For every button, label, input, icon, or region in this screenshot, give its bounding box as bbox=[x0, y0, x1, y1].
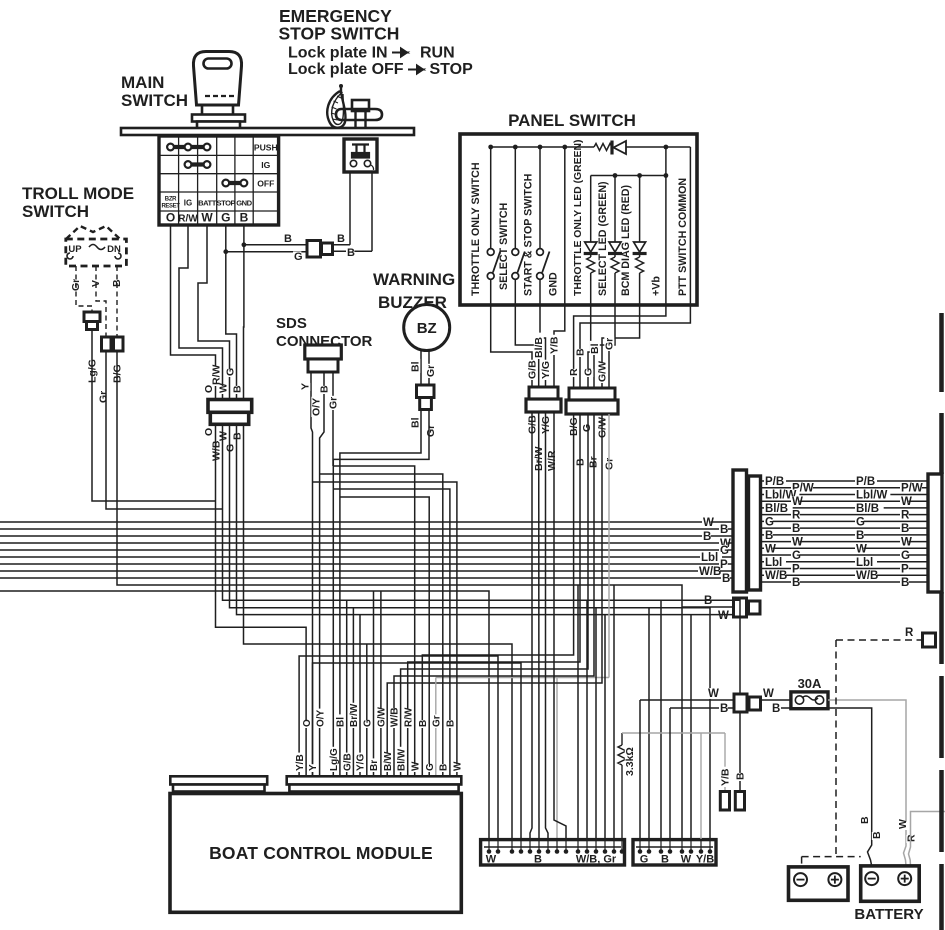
svg-text:Bl/W: Bl/W bbox=[396, 748, 407, 771]
svg-text:G: G bbox=[225, 444, 237, 452]
label B fuse right bbox=[771, 703, 780, 714]
wire gray Gr link bbox=[436, 677, 609, 679]
svg-text:Gr: Gr bbox=[425, 425, 437, 437]
svg-text:START & STOP SWITCH: START & STOP SWITCH bbox=[523, 174, 535, 296]
wire panel select switch to Bl/B bbox=[515, 305, 538, 387]
wire troll B/G down bbox=[117, 351, 682, 839]
svg-text:SELECT LED (GREEN): SELECT LED (GREEN) bbox=[597, 181, 609, 296]
svg-text:Lbl/W: Lbl/W bbox=[856, 489, 887, 501]
bcm wire label B/W bbox=[383, 753, 393, 772]
wire W to fuse connector bbox=[640, 699, 733, 701]
wire panel2 run 4 bbox=[394, 414, 594, 776]
svg-text:Lbl: Lbl bbox=[701, 552, 718, 564]
svg-text:O: O bbox=[166, 211, 175, 225]
svg-text:B: B bbox=[735, 772, 747, 780]
label B battery 1 bbox=[860, 817, 870, 825]
troll switch contacts bbox=[67, 253, 73, 259]
wire panel throttle switch to G/B bbox=[491, 305, 532, 387]
wire panel start stop to Y/G bbox=[540, 305, 546, 387]
wire harness B bbox=[761, 581, 928, 583]
svg-text:Lbl: Lbl bbox=[765, 557, 782, 569]
label 3.3kohm bbox=[625, 745, 635, 777]
small connector B/W bbox=[734, 598, 747, 617]
wire SDS B bbox=[320, 372, 324, 444]
wire bcm Y riser from SDS bbox=[312, 440, 314, 776]
label Y/B terminal bbox=[720, 767, 730, 787]
svg-text:W: W bbox=[856, 543, 867, 555]
svg-text:Y/B: Y/B bbox=[295, 754, 306, 771]
wire emergency stop right B bbox=[371, 172, 373, 251]
wire troll Gr dashed bbox=[76, 266, 92, 312]
svg-text:Lock plate IN: Lock plate IN bbox=[288, 45, 388, 62]
emergency stop inline connector bbox=[307, 241, 321, 258]
svg-text:30A: 30A bbox=[798, 676, 822, 691]
svg-text:Gr: Gr bbox=[432, 715, 443, 727]
svg-text:B: B bbox=[720, 524, 728, 536]
svg-text:W: W bbox=[218, 431, 230, 441]
svg-text:W: W bbox=[792, 496, 803, 508]
svg-text:B: B bbox=[337, 233, 345, 245]
label R battery bbox=[906, 835, 916, 843]
wire B terminal bbox=[739, 791, 741, 793]
bcm connector strip left bbox=[170, 776, 267, 784]
dashed wire R main bbox=[836, 639, 917, 641]
boat control module box bbox=[170, 794, 461, 913]
wire bcm Y/B feed bbox=[299, 656, 498, 839]
svg-text:W: W bbox=[703, 517, 714, 529]
gray link resistor to strip2 bbox=[622, 732, 725, 734]
svg-text:B: B bbox=[720, 703, 728, 715]
dashed wire battery jumper vertical bbox=[835, 640, 837, 857]
wire panel2 run 5 bbox=[387, 414, 602, 776]
wire bcm G/W riser bbox=[380, 591, 382, 776]
emergency stop lanyard cord bbox=[327, 91, 345, 128]
svg-text:B: B bbox=[792, 523, 800, 535]
svg-text:G: G bbox=[792, 550, 801, 562]
svg-text:B: B bbox=[446, 720, 457, 727]
bcm wire label W bbox=[453, 764, 463, 772]
svg-text:SDS: SDS bbox=[276, 315, 307, 332]
throttle only switch bbox=[490, 147, 492, 249]
label Bl buzzer top bbox=[410, 359, 420, 373]
wire main G to W terminal bbox=[237, 424, 734, 614]
wire branch to BCM G riser bbox=[320, 474, 443, 776]
svg-text:G/W: G/W bbox=[377, 706, 388, 727]
svg-text:Lbl: Lbl bbox=[856, 557, 873, 569]
svg-text:R/W: R/W bbox=[178, 214, 198, 225]
harness connector right (to engine) bbox=[928, 474, 942, 592]
svg-text:BZ: BZ bbox=[417, 320, 437, 337]
labels above main connector bbox=[204, 386, 214, 394]
bcm wire label Y/B bbox=[295, 753, 305, 772]
svg-text:R/W: R/W bbox=[403, 707, 414, 727]
wire strip2 pin 661 drop bbox=[660, 600, 662, 839]
lanyard pin bbox=[340, 86, 342, 95]
wire harness R bbox=[761, 514, 928, 516]
wire SDS Gr to BCM W riser bbox=[333, 466, 415, 776]
svg-text:+Vb: +Vb bbox=[651, 276, 663, 296]
emergency stop knob bbox=[352, 100, 369, 111]
emergency stop lock plate bbox=[336, 109, 382, 120]
bcm connector strip right bbox=[287, 776, 462, 784]
svg-text:B: B bbox=[284, 233, 292, 245]
svg-text:Bl/B: Bl/B bbox=[856, 503, 879, 515]
wire bcm Br/W riser bbox=[352, 608, 354, 776]
svg-text:Bl/B: Bl/B bbox=[533, 337, 545, 358]
bcm wire label W/B bbox=[390, 709, 400, 728]
main switch key dashed grip line bbox=[205, 95, 236, 97]
svg-text:TROLL MODE: TROLL MODE bbox=[22, 184, 134, 203]
svg-text:Y/B: Y/B bbox=[549, 336, 561, 354]
svg-text:BATT: BATT bbox=[198, 199, 217, 208]
svg-text:PANEL SWITCH: PANEL SWITCH bbox=[508, 111, 636, 130]
svg-text:G/B: G/B bbox=[342, 753, 353, 771]
main switch contact table bbox=[159, 136, 279, 225]
panel connector 1 bbox=[529, 387, 558, 399]
troll connector Lg/G bbox=[84, 312, 100, 322]
wire panel led1 to G bbox=[588, 305, 591, 388]
wire R/W column bbox=[179, 225, 223, 398]
svg-text:G: G bbox=[363, 719, 374, 727]
wire buzzer Gr to BCM Lg/G riser bbox=[333, 410, 429, 777]
svg-text:R: R bbox=[568, 368, 580, 376]
label W battery bbox=[898, 822, 908, 830]
wire harness G bbox=[761, 520, 928, 522]
svg-text:B: B bbox=[439, 764, 450, 771]
label R dashed bbox=[904, 627, 913, 638]
wire Y/B terminal bbox=[724, 733, 726, 792]
wire harness P/W bbox=[761, 487, 928, 489]
svg-text:B: B bbox=[859, 816, 871, 824]
svg-text:B: B bbox=[240, 211, 249, 225]
svg-text:STOP: STOP bbox=[217, 199, 236, 208]
wire main W/B to B terminal bbox=[223, 424, 741, 791]
svg-text:W: W bbox=[708, 688, 719, 700]
svg-text:R: R bbox=[906, 834, 918, 842]
svg-text:GND: GND bbox=[236, 199, 252, 208]
main inline connector bbox=[208, 400, 252, 413]
wire panel2 run 1 bbox=[422, 414, 573, 776]
svg-text:R: R bbox=[905, 627, 914, 639]
battery 2 bbox=[861, 866, 920, 901]
wire bundle-left B bbox=[0, 528, 733, 530]
wire emergency stop left B bbox=[349, 172, 351, 245]
wire bundle-left B bbox=[0, 577, 733, 579]
svg-text:B: B bbox=[575, 348, 587, 356]
svg-text:W: W bbox=[765, 543, 776, 555]
labels above panel connector 2 bbox=[569, 369, 579, 377]
svg-text:G: G bbox=[221, 211, 230, 225]
wire troll Gr down bbox=[106, 351, 223, 509]
svg-text:W/B: W/B bbox=[211, 440, 223, 461]
bcm wire label Br/W bbox=[349, 703, 359, 728]
wire B to small connector bbox=[682, 606, 733, 608]
wire G column bbox=[226, 225, 237, 398]
svg-text:Bl/B: Bl/B bbox=[765, 503, 788, 515]
wire bundle-left G bbox=[0, 549, 733, 551]
svg-text:W: W bbox=[201, 211, 213, 225]
svg-text:B: B bbox=[765, 530, 773, 542]
label B right top bbox=[336, 233, 344, 243]
wire R battery bbox=[909, 812, 945, 867]
svg-text:W: W bbox=[718, 610, 729, 622]
svg-text:Gr: Gr bbox=[425, 365, 437, 377]
svg-text:Gr: Gr bbox=[70, 279, 82, 291]
svg-text:BCM DIAG LED (RED): BCM DIAG LED (RED) bbox=[620, 185, 632, 296]
svg-text:Gr: Gr bbox=[98, 391, 110, 403]
svg-text:W: W bbox=[681, 854, 692, 866]
wire buzzer Bl bbox=[420, 350, 422, 385]
svg-text:Gr: Gr bbox=[604, 338, 616, 350]
bcm wire label R/W bbox=[404, 709, 414, 728]
labels above panel connector 1 bbox=[527, 360, 537, 380]
svg-text:UP: UP bbox=[68, 244, 82, 255]
wire bundle-left W/B bbox=[0, 570, 733, 572]
wire branch to BCM W riser 2 bbox=[313, 482, 457, 776]
svg-text:P: P bbox=[901, 563, 909, 575]
bcm wire label O/Y bbox=[316, 709, 326, 728]
wire harness Lbl bbox=[761, 561, 928, 563]
svg-text:BOAT CONTROL MODULE: BOAT CONTROL MODULE bbox=[209, 843, 433, 863]
wire main B to strip1 pin 512 bbox=[244, 424, 513, 839]
bcm wire label G/B bbox=[343, 753, 353, 772]
panel switch box bbox=[460, 134, 697, 305]
svg-text:G: G bbox=[581, 424, 593, 432]
gnd wire bbox=[564, 147, 566, 305]
wire main O to BCM O riser bbox=[216, 424, 307, 776]
svg-text:W: W bbox=[792, 537, 803, 549]
svg-text:Y/G: Y/G bbox=[356, 754, 367, 771]
svg-text:Y/B: Y/B bbox=[696, 854, 714, 866]
svg-text:B: B bbox=[772, 703, 780, 715]
svg-text:G: G bbox=[425, 763, 436, 771]
svg-text:O: O bbox=[302, 719, 313, 727]
svg-text:B: B bbox=[792, 577, 800, 589]
svg-text:O: O bbox=[203, 428, 215, 436]
wire B to fuse connector bbox=[670, 707, 733, 709]
wire panel ptt to B bbox=[580, 305, 690, 388]
svg-text:RESET: RESET bbox=[161, 204, 180, 210]
svg-text:B/W: B/W bbox=[383, 751, 394, 771]
wire bundle-left B bbox=[0, 535, 733, 537]
dashed wire battery jumper horizontal bbox=[802, 856, 861, 858]
wire bundle-left Lbl bbox=[0, 556, 733, 558]
svg-text:Y/B: Y/B bbox=[720, 768, 732, 786]
wire troll V dashed bbox=[96, 266, 106, 337]
wire panel Gr stub bbox=[608, 342, 610, 388]
wire buzzer Bl to BCM Bl riser bbox=[340, 410, 421, 777]
wire harness W bbox=[761, 541, 928, 543]
main switch IG row contacts bbox=[188, 162, 207, 166]
mounting panel bar bbox=[121, 128, 414, 135]
svg-text:B: B bbox=[661, 854, 669, 866]
relay connector strip 1 bbox=[481, 840, 625, 865]
svg-text:Y: Y bbox=[308, 764, 319, 771]
svg-text:W/B: W/B bbox=[856, 570, 878, 582]
panel bus resistor bbox=[594, 144, 612, 151]
svg-text:R: R bbox=[901, 510, 910, 522]
svg-text:G: G bbox=[640, 854, 649, 866]
svg-text:Bl: Bl bbox=[410, 361, 422, 372]
label B small conn bbox=[703, 595, 712, 606]
panel bus diode bbox=[610, 141, 613, 155]
svg-text:B: B bbox=[111, 279, 123, 287]
svg-text:W: W bbox=[763, 688, 774, 700]
led columns bbox=[590, 176, 592, 243]
svg-text:B: B bbox=[347, 247, 355, 259]
svg-text:BZR: BZR bbox=[165, 197, 177, 203]
warning buzzer BZ bbox=[404, 305, 450, 351]
label Y sds bbox=[300, 383, 310, 391]
terminal R bbox=[923, 633, 936, 647]
wire harness P/B bbox=[761, 480, 928, 482]
svg-text:O/Y: O/Y bbox=[315, 709, 326, 727]
wire bcm O/Y riser from SDS bbox=[319, 444, 321, 776]
svg-text:3.3kΩ: 3.3kΩ bbox=[624, 747, 636, 776]
bcm wire label Y bbox=[308, 764, 318, 772]
svg-text:THROTTLE ONLY LED (GREEN): THROTTLE ONLY LED (GREEN) bbox=[573, 140, 584, 296]
labels below panel connector 2 bbox=[569, 417, 579, 437]
label Gr bbox=[98, 390, 108, 404]
wire strip1 pin 596 drop bbox=[595, 608, 597, 839]
svg-text:Lg/G: Lg/G bbox=[329, 748, 340, 771]
wire harness P bbox=[761, 567, 928, 569]
buzzer connector bbox=[417, 385, 435, 398]
svg-text:V: V bbox=[90, 280, 102, 287]
label Bl buzzer bottom bbox=[410, 415, 420, 429]
wire fuse to battery + gray bbox=[828, 700, 906, 866]
svg-text:G: G bbox=[856, 516, 865, 528]
wire bundle-left P bbox=[0, 563, 733, 565]
wire bundle line10 bbox=[0, 591, 489, 839]
wire harness B bbox=[761, 534, 928, 536]
svg-text:W: W bbox=[901, 537, 912, 549]
wire connector to fuse bbox=[761, 699, 791, 701]
emergency stop contacts bbox=[350, 160, 356, 166]
main switch PUSH row contacts bbox=[171, 145, 208, 149]
svg-text:W: W bbox=[897, 819, 909, 829]
svg-text:B: B bbox=[703, 531, 711, 543]
wire B battery bbox=[781, 708, 872, 866]
svg-text:W/B: W/B bbox=[390, 708, 401, 727]
svg-text:W: W bbox=[486, 854, 497, 866]
svg-text:O: O bbox=[203, 385, 215, 393]
svg-text:P: P bbox=[792, 563, 800, 575]
wire panel led3 to G/W bbox=[602, 305, 640, 388]
fuse 30A bbox=[791, 692, 828, 709]
svg-text:IG: IG bbox=[261, 160, 270, 170]
wire panel2 run 2 bbox=[408, 414, 580, 776]
wire panel gnd to Y/B bbox=[554, 305, 565, 387]
wire panel1 Y/G down bbox=[538, 412, 540, 839]
svg-text:G: G bbox=[225, 368, 237, 376]
wire stop connector to B right top bbox=[332, 244, 350, 246]
svg-text:PUSH: PUSH bbox=[254, 143, 278, 153]
label B right bottom bbox=[346, 247, 354, 257]
wire strip1 pin 605 drop bbox=[604, 615, 606, 839]
svg-text:B: B bbox=[704, 595, 712, 607]
labels below main connector bbox=[204, 429, 214, 437]
svg-text:Y: Y bbox=[300, 383, 312, 390]
wire panel led2 to Bl bbox=[594, 305, 615, 388]
wire B column bbox=[243, 225, 245, 398]
svg-text:G: G bbox=[901, 550, 910, 562]
wire bcm G riser bbox=[366, 644, 368, 776]
label Gr buzzer bottom bbox=[426, 424, 436, 438]
frame cut line right edge bbox=[939, 313, 944, 392]
svg-text:Lock plate OFF: Lock plate OFF bbox=[288, 61, 404, 78]
svg-text:Br/W: Br/W bbox=[349, 703, 360, 727]
junction dot G column bbox=[223, 249, 228, 254]
bcm wire label Gr bbox=[432, 714, 442, 728]
troll mode dashed housing bbox=[66, 239, 127, 266]
svg-text:B: B bbox=[871, 831, 883, 839]
svg-text:PTT SWITCH COMMON: PTT SWITCH COMMON bbox=[677, 178, 689, 296]
ptt switch common wire bbox=[689, 147, 691, 305]
terminal B bbox=[735, 792, 744, 811]
svg-text:P/B: P/B bbox=[856, 476, 875, 488]
wire harness G bbox=[761, 554, 928, 556]
label Gr buzzer top bbox=[426, 364, 436, 378]
label B fuse left bbox=[719, 703, 728, 714]
svg-text:OFF: OFF bbox=[257, 179, 274, 189]
wire strip2 pin 691 drop bbox=[690, 615, 692, 839]
svg-text:B: B bbox=[856, 530, 864, 542]
wire strip1 pin 614 drop bbox=[613, 585, 615, 839]
svg-text:Bl: Bl bbox=[410, 417, 422, 428]
wire buzzer Gr bbox=[428, 349, 430, 385]
svg-text:B: B bbox=[901, 523, 909, 535]
label Gr sds bbox=[328, 396, 338, 410]
label B/G bbox=[112, 364, 122, 384]
bcm wire label Lg/G bbox=[329, 747, 339, 772]
bcm wire label O bbox=[302, 720, 312, 728]
svg-text:Y/G: Y/G bbox=[540, 361, 552, 379]
bcm wire label Bl/W bbox=[397, 747, 407, 772]
wire bundle-left W bbox=[0, 542, 733, 544]
svg-text:B: B bbox=[232, 385, 244, 393]
panel bus top bbox=[491, 146, 594, 148]
+Vb wire bbox=[665, 147, 667, 305]
troll terminal 2 bbox=[114, 337, 124, 351]
wire SDS Y bbox=[311, 372, 313, 440]
main switch key slot bbox=[204, 59, 232, 69]
svg-text:STOP SWITCH: STOP SWITCH bbox=[279, 24, 400, 44]
svg-text:W/B, Gr: W/B, Gr bbox=[576, 854, 617, 866]
wire bundle-left W bbox=[0, 521, 733, 523]
svg-text:SWITCH: SWITCH bbox=[22, 202, 89, 221]
svg-text:G: G bbox=[765, 516, 774, 528]
wire bcm Y/G riser bbox=[359, 615, 361, 776]
label B sds bbox=[319, 386, 329, 394]
bcm wire label B bbox=[418, 720, 428, 728]
svg-text:B: B bbox=[901, 577, 909, 589]
wire bcm G/B riser bbox=[346, 600, 348, 776]
wire stop connector to B right bottom bbox=[332, 250, 372, 252]
svg-text:GND: GND bbox=[548, 272, 560, 296]
svg-text:W/R: W/R bbox=[546, 450, 558, 471]
labels below panel connector 1 bbox=[527, 415, 537, 435]
svg-text:P/W: P/W bbox=[901, 483, 923, 495]
svg-text:Bl: Bl bbox=[336, 717, 347, 727]
svg-text:R: R bbox=[792, 510, 801, 522]
svg-text:MAIN: MAIN bbox=[121, 73, 164, 92]
svg-text:R/W: R/W bbox=[211, 365, 223, 386]
wire B to main switch B column bbox=[244, 244, 307, 246]
wire SDS Gr bbox=[332, 372, 334, 466]
svg-text:Gr: Gr bbox=[328, 397, 340, 409]
svg-text:W/B: W/B bbox=[699, 566, 721, 578]
